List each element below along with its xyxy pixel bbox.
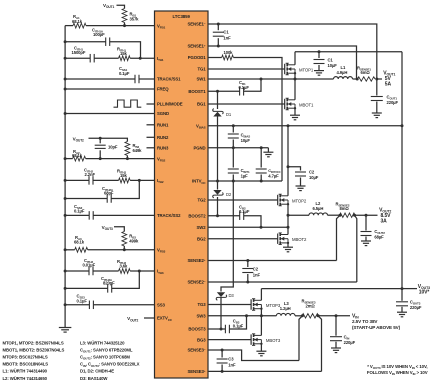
node VIN label	[352, 314, 401, 330]
wire VFB1 line	[65, 25, 154, 27]
junction rail/SS1	[64, 78, 67, 81]
svg-text:10µF: 10µF	[241, 138, 251, 143]
junction C2/SENSE2+	[246, 259, 249, 262]
junction C1/SENSE1-	[217, 23, 220, 26]
wire VBIAS line	[208, 125, 402, 127]
node VOUT2 (feedback tap label)	[73, 137, 84, 143]
node VOUT1 output label	[383, 71, 395, 88]
junction C2/SENSE2-	[246, 281, 249, 284]
wire SENSE2+ tap	[337, 215, 341, 260]
wire BOOST1 row	[208, 79, 261, 91]
wire ITH3 row	[65, 270, 154, 272]
junction C1b/input rail	[318, 50, 321, 53]
junction rail/CITH1A	[64, 40, 67, 43]
resistor RA3 68.1k	[74, 235, 88, 252]
svg-text:TRACK/SS2: TRACK/SS2	[157, 213, 181, 218]
ground (COUT2)	[361, 241, 371, 246]
wire SW1 line	[208, 78, 334, 80]
node VOUT1 (feedback tap label)	[103, 3, 114, 9]
svg-text:SW3: SW3	[196, 314, 206, 319]
junction D2/BOOST2	[216, 214, 219, 217]
capacitor CITH2 2.2nF	[84, 168, 95, 185]
junction RSENSE1/SENSE1+ tap	[356, 78, 359, 81]
svg-text:357k: 357k	[130, 17, 140, 22]
wire TG2 to MTOP2 gate	[208, 199, 278, 201]
capacitor COUT2 68uF	[361, 215, 386, 240]
junction rail/SS2	[64, 214, 67, 217]
junction rail/CITH3A	[64, 287, 67, 290]
junction VBIAS/input rail	[401, 124, 404, 127]
ground (COUT1)	[372, 113, 382, 118]
junction rail/ITH2	[64, 179, 67, 182]
capacitor C2 1nF	[242, 261, 260, 283]
node VOUT2 output label	[379, 207, 391, 224]
wire SENSE3- tap	[299, 316, 302, 361]
component list column 1	[3, 341, 65, 381]
ground (MBOT2)	[283, 247, 293, 252]
svg-text:220µF: 220µF	[344, 340, 356, 345]
wire INTVCC row	[208, 180, 282, 182]
svg-text:1nF: 1nF	[228, 362, 236, 367]
junction rail/ITH3	[64, 270, 67, 273]
capacitor CITH2A 68pF	[102, 186, 114, 203]
svg-text:MTOP3: BSC027N04LS: MTOP3: BSC027N04LS	[3, 355, 48, 360]
svg-text:MTOP1: MTOP1	[299, 67, 314, 72]
svg-text:8mΩ: 8mΩ	[340, 206, 350, 211]
capacitor CINT1 1uF	[228, 148, 250, 181]
capacitor C1 10uF input bypass ch1	[314, 52, 338, 71]
svg-text:1500pF: 1500pF	[72, 50, 86, 55]
svg-text:10pF: 10pF	[108, 145, 118, 150]
svg-text:0.01µF: 0.01µF	[83, 263, 96, 268]
svg-text:820pF: 820pF	[103, 281, 115, 286]
node VOUT2 to EXTVCC	[127, 316, 154, 322]
svg-text:0.1µF: 0.1µF	[233, 323, 244, 328]
svg-text:BG1: BG1	[197, 102, 206, 107]
capacitor CB1 0.1uF	[239, 80, 250, 96]
wire RB3 to VFB3	[123, 246, 125, 250]
wire MTOP2 drain riser	[287, 126, 289, 196]
junction rail/CITH2A	[64, 197, 67, 200]
wire D1 riser	[217, 91, 219, 181]
capacitor COUT1 220uF	[371, 79, 399, 113]
resistor RB2 649k	[125, 142, 142, 156]
capacitor CSS3 0.1uF	[77, 294, 94, 310]
svg-text:3A: 3A	[381, 218, 388, 224]
wire SENSE2- line	[208, 281, 357, 283]
junction VOUT3 node	[401, 287, 404, 290]
junction MTOP3-MBOT3/SW3	[260, 314, 263, 317]
svg-text:6mΩ: 6mΩ	[361, 70, 371, 75]
junction rail/FREQ	[64, 88, 67, 91]
wire MTOP1 source to SW1	[294, 73, 296, 79]
wire CITH1A branch	[65, 42, 140, 59]
wire ITH1 row	[65, 57, 154, 59]
wire MBOT3 drain to SW3	[260, 316, 262, 336]
svg-text:RUN3: RUN3	[157, 146, 169, 151]
svg-text:BOOST1: BOOST1	[188, 89, 206, 94]
junction SW2/MOSFET node	[287, 226, 290, 229]
svg-text:68.1k: 68.1k	[72, 153, 83, 158]
wire ITH2 row	[65, 179, 154, 181]
resistor RITH3 3.6k	[117, 259, 130, 273]
junction CINTVCC/INTVCC	[260, 180, 263, 183]
capacitor CB3 0.1uF	[225, 318, 243, 333]
wire SENSE1+ line	[208, 46, 357, 79]
svg-text:220µF: 220µF	[387, 100, 399, 105]
junction CB3/SW3	[245, 314, 248, 317]
junction ITH1/CITH1A	[139, 57, 142, 60]
wire RB2 to VFB2	[126, 156, 128, 159]
svg-text:4.7µF: 4.7µF	[268, 173, 279, 178]
component list column 2	[80, 341, 140, 381]
wire BOOST2 row	[208, 216, 261, 228]
svg-text:MBOT3: BSC018N04LS: MBOT3: BSC018N04LS	[3, 362, 49, 367]
svg-text:68.1k: 68.1k	[74, 239, 85, 244]
wire RSENSE3 to VIN node	[319, 315, 351, 317]
wire SENSE2- tap	[355, 215, 357, 282]
wire PGND row	[208, 147, 268, 149]
capacitor CITH1 1500pF	[72, 46, 95, 63]
wire MBOT1 drain to SW1	[294, 79, 296, 100]
junction VOUT2 node	[365, 214, 368, 217]
svg-text:10µF: 10µF	[309, 175, 319, 180]
svg-text:15k: 15k	[120, 173, 127, 178]
node VOUT3 (feedback tap label)	[102, 225, 113, 231]
resistor RSENSE1 6mOhm	[357, 65, 375, 81]
wire SENSE1- line	[208, 24, 377, 79]
net SGND rail (left vertical ground rail)	[64, 26, 66, 327]
capacitor CITH3 0.01uF	[83, 258, 96, 275]
junction RSENSE2 right tap	[353, 214, 356, 217]
junction MTOP1-MBOT1/SW1	[294, 78, 297, 81]
svg-text:0.1µF: 0.1µF	[74, 209, 85, 214]
wire MBOT1 source to gnd	[294, 108, 296, 115]
wire VOUT3 line	[261, 288, 402, 290]
junction C4.7/PGND	[260, 146, 263, 149]
resistor 100k PGOOD1 pull-up	[222, 50, 234, 60]
wire RUN1 stub	[147, 124, 155, 126]
svg-text:(START-UP ABOVE 5V): (START-UP ABOVE 5V)	[352, 325, 401, 330]
diode D3 (INTVCC to BOOST3)	[216, 292, 234, 300]
svg-text:2.2nF: 2.2nF	[85, 172, 96, 177]
junction D1/INTVCC	[216, 180, 219, 183]
svg-text:LTC3859: LTC3859	[173, 14, 191, 19]
junction MTOP2 riser/VBIAS	[287, 124, 290, 127]
wire MTOP3 drain riser	[260, 289, 262, 301]
resistor RSENSE2 8mOhm	[336, 201, 356, 217]
svg-text:D3: BAS140W: D3: BAS140W	[80, 376, 108, 381]
transistor MBOT1	[285, 98, 314, 110]
svg-text:3.6k: 3.6k	[120, 264, 129, 269]
wire BG3 to MBOT3 gate	[208, 339, 251, 341]
inductor L1 4.9uH	[334, 65, 353, 79]
wire VOUT1 stub to RB1	[117, 5, 125, 8]
svg-text:0.1µF: 0.1µF	[239, 85, 250, 90]
svg-text:0.1µF: 0.1µF	[239, 209, 250, 214]
resistor RITH1 15k	[117, 47, 130, 61]
wire PLLIN/MODE stub	[147, 103, 155, 105]
junction rail/SS3	[64, 303, 67, 306]
wire BG1 to MBOT1 gate	[208, 103, 285, 105]
junction rail/ITH1	[64, 57, 67, 60]
wire TRACK/SS2 row	[65, 214, 154, 216]
svg-text:PLLIN/MODE: PLLIN/MODE	[157, 102, 183, 107]
svg-text:D3: D3	[229, 293, 235, 298]
wire SENSE3+ tap	[318, 316, 321, 372]
junction C2b tap	[287, 165, 290, 168]
inductor L2 6.5uH	[309, 201, 328, 215]
svg-text:1nF: 1nF	[223, 36, 231, 41]
wire TG3 to MTOP3 gate	[208, 304, 251, 306]
wire MTOP2 source to SW2 node	[287, 204, 289, 234]
wire D3 riser from INTVCC	[221, 181, 233, 292]
wire TRACK/SS1 row	[65, 78, 154, 80]
svg-text:1µF: 1µF	[241, 173, 249, 178]
junction D3/BOOST3	[220, 328, 223, 331]
svg-text:D1, D2: CMDH-4E: D1, D2: CMDH-4E	[80, 369, 114, 374]
svg-text:MTOP3: MTOP3	[266, 303, 281, 308]
svg-text:68pF: 68pF	[104, 191, 114, 196]
wire input rail right (VOUT3 to bucks)	[401, 52, 403, 289]
junction VOUT2/10pF	[99, 137, 102, 140]
capacitor COUT3 220uF	[396, 289, 422, 312]
wire MTOP3 source to SW3	[260, 309, 262, 316]
svg-text:MTOP1, MTOP2: BSZ097N04LS: MTOP1, MTOP2: BSZ097N04LS	[3, 341, 64, 346]
svg-text:220µF: 220µF	[410, 305, 422, 310]
junction rail/VFB3	[64, 248, 67, 251]
wire TG1 to MTOP1 gate	[208, 68, 285, 70]
svg-text:BOOST2: BOOST2	[188, 213, 206, 218]
wire SW2 row	[208, 226, 288, 228]
capacitor C2 10uF input bypass ch2	[288, 167, 319, 186]
svg-text:68.1k: 68.1k	[72, 19, 83, 24]
wire VFB3 row	[65, 249, 154, 251]
wire VOUT3 stub	[114, 227, 124, 232]
IC U1 LTC3859 controller body	[155, 11, 209, 378]
svg-text:C1: C1	[328, 58, 334, 63]
wire VOUT3 stub right	[402, 288, 417, 290]
capacitor CSS1 0.1uF	[119, 66, 139, 83]
svg-text:C1: C1	[223, 30, 229, 35]
note VOUT3 behavior	[367, 364, 428, 376]
svg-text:PGND: PGND	[193, 146, 205, 151]
svg-text:499k: 499k	[129, 239, 139, 244]
junction rail/VFB2	[64, 157, 67, 160]
wire D3 lower riser	[220, 298, 222, 330]
resistor RA2 68.1k	[72, 149, 86, 161]
wire VFB2 row	[65, 158, 154, 160]
capacitor CIN 220uF	[330, 316, 356, 348]
junction ITH3/CITH3A	[138, 270, 141, 273]
wire SS3 row	[65, 304, 154, 306]
transistor MTOP2	[278, 194, 307, 206]
wire SENSE3+ line	[208, 370, 322, 372]
junction C3/SENSE3+	[221, 370, 224, 373]
svg-text:L2: WÜRTH 744314650: L2: WÜRTH 744314650	[3, 376, 48, 381]
wire VOUT2 stub	[89, 138, 128, 141]
wire D2 riser	[217, 181, 219, 216]
svg-text:100k: 100k	[224, 50, 234, 55]
svg-text:MBOT1, MBOT2: BSZ097N04LS: MBOT1, MBOT2: BSZ097N04LS	[3, 348, 65, 353]
wire VOUT1 stub right	[377, 78, 382, 80]
svg-text:2.5V TO 38V: 2.5V TO 38V	[352, 319, 378, 324]
svg-text:TG2: TG2	[197, 198, 206, 203]
junction RB1/VFB1	[123, 24, 126, 27]
ground (MBOT3)	[256, 351, 266, 356]
wire MTOP1 drain riser	[294, 52, 296, 65]
junction C1/SENSE1+	[217, 45, 220, 48]
wire RUN3 stub	[147, 147, 155, 149]
svg-text:0.1µF: 0.1µF	[77, 298, 88, 303]
svg-text:1.2µH: 1.2µH	[280, 306, 291, 311]
transistor MTOP3	[251, 299, 281, 311]
svg-text:PGOOD1: PGOOD1	[188, 55, 206, 60]
junction CBIAS/PGND	[232, 146, 235, 149]
wire RB1 to VFB1 line	[124, 23, 126, 26]
svg-text:0.1µF: 0.1µF	[119, 71, 130, 76]
svg-text:C2: C2	[309, 170, 315, 175]
svg-text:RUN2: RUN2	[157, 135, 169, 140]
capacitor CB2 0.1uF	[239, 204, 250, 220]
svg-text:L1: WÜRTH 744314490: L1: WÜRTH 744314490	[3, 369, 48, 374]
svg-text:L3: WÜRTH 744325120: L3: WÜRTH 744325120	[80, 341, 125, 346]
junction D1/BOOST1	[216, 90, 219, 93]
capacitor CBIAS 10uF	[228, 126, 251, 148]
wire MBOT3 source to gnd	[260, 344, 262, 351]
junction 10pF/VFB2	[99, 157, 102, 160]
svg-text:FREQ: FREQ	[157, 87, 169, 92]
svg-text:MBOT2: MBOT2	[292, 237, 307, 242]
wire L2 line	[288, 214, 309, 216]
wire PGOOD1 row	[208, 58, 282, 182]
junction VOUT1 node	[375, 78, 378, 81]
svg-text:5A: 5A	[385, 82, 392, 88]
svg-text:649k: 649k	[133, 148, 143, 153]
node VOUT3 output label	[418, 284, 430, 296]
inductor L3 1.2uH	[276, 301, 295, 316]
wire L3 to RSENSE3	[295, 315, 302, 317]
junction CBIAS/VBIAS	[232, 124, 235, 127]
svg-text:2mΩ: 2mΩ	[306, 303, 316, 308]
wire CITH3A branch	[65, 271, 139, 288]
wire BOOST3 row	[208, 316, 247, 329]
wire MBOT2 source to gnd	[287, 243, 289, 247]
capacitor CINTVCC 4.7uF	[256, 148, 281, 181]
junction CB1/SW1	[260, 78, 263, 81]
wire SENSE3- line	[208, 350, 299, 361]
capacitor CITH3A 820pF	[101, 276, 115, 293]
svg-text:BG3: BG3	[197, 337, 206, 342]
wire SGND row	[65, 113, 154, 115]
junction CB2/SW2	[260, 226, 263, 229]
junction CINT1+D3 riser/INTVCC	[232, 180, 235, 183]
capacitor 10pF feedforward	[95, 138, 118, 158]
resistor RSENSE3 2mOhm	[302, 299, 319, 319]
svg-text:SENSE2+: SENSE2+	[187, 258, 205, 263]
capacitor CITH1A 100pF	[92, 28, 110, 46]
junction L2 tap	[287, 214, 290, 217]
wire BG2 to MBOT2 gate	[208, 238, 278, 240]
capacitor C3 1nF	[217, 350, 236, 371]
svg-text:BOOST3: BOOST3	[188, 327, 206, 332]
svg-text:SENSE3−: SENSE3−	[187, 347, 205, 352]
svg-text:SENSE2−: SENSE2−	[187, 279, 205, 284]
junction RB3/VFB3	[123, 248, 126, 251]
wire CITH2A branch	[65, 180, 139, 198]
svg-text:SW2: SW2	[196, 225, 206, 230]
svg-text:TG1: TG1	[197, 67, 206, 72]
diode D1 (INTVCC to BOOST1)	[213, 109, 232, 117]
wire SENSE2+ line	[208, 260, 337, 262]
diode D2 (INTVCC to BOOST2)	[213, 190, 232, 198]
svg-text:MBOT3: MBOT3	[266, 338, 281, 343]
wire SW3 line	[208, 315, 276, 317]
svg-text:C3: C3	[228, 357, 234, 362]
transistor MTOP1	[285, 63, 314, 75]
transistor MBOT3	[251, 334, 281, 346]
ground (MBOT1)	[290, 115, 300, 120]
resistor RA1 68.1k	[72, 14, 86, 28]
svg-text:SENSE1+: SENSE1+	[187, 43, 205, 48]
svg-text:SS3: SS3	[157, 303, 166, 308]
capacitor C1 1nF	[213, 24, 231, 46]
svg-text:6.5µH: 6.5µH	[313, 206, 324, 211]
junction RSENSE3 right tap	[317, 314, 320, 317]
resistor RITH2 15k	[117, 169, 130, 183]
svg-text:4.9µH: 4.9µH	[337, 70, 348, 75]
svg-text:15k: 15k	[120, 51, 127, 56]
svg-text:D1: D1	[226, 112, 232, 117]
IC left pin labels	[157, 23, 183, 322]
svg-text:SW1: SW1	[196, 77, 206, 82]
junction rail/SGND	[64, 112, 67, 115]
ground (ch2 input bypass)	[296, 186, 306, 191]
transistor MBOT2	[278, 233, 307, 245]
svg-text:1nF: 1nF	[253, 273, 261, 278]
ground (ch1 input bypass)	[314, 71, 324, 76]
resistor RB3 499k	[122, 232, 139, 247]
svg-text:10V*: 10V*	[419, 290, 430, 296]
wire input rail top	[295, 51, 402, 53]
svg-text:C2: C2	[253, 267, 259, 272]
svg-text:RUN1: RUN1	[157, 123, 169, 128]
IC right pin labels	[187, 21, 206, 374]
ground (PGND)	[263, 148, 273, 157]
svg-text:MTOP2: MTOP2	[292, 198, 307, 203]
svg-text:100pF: 100pF	[93, 32, 105, 37]
svg-text:SENSE3+: SENSE3+	[187, 369, 205, 374]
svg-text:BG2: BG2	[197, 236, 206, 241]
svg-text:SGND: SGND	[157, 111, 169, 116]
junction ITH2/CITH2A	[138, 179, 141, 182]
svg-text:MBOT1: MBOT1	[299, 102, 314, 107]
junction CIN/VIN	[335, 314, 338, 317]
capacitor CSS2 0.1uF	[74, 204, 93, 220]
svg-text:TRACK/SS1: TRACK/SS1	[157, 77, 181, 82]
ground (CIN)	[331, 348, 341, 353]
svg-text:TG3: TG3	[197, 302, 206, 307]
junction C3/SENSE3-	[221, 349, 224, 352]
wire FREQ row	[65, 88, 154, 90]
wire RUN2 stub	[147, 136, 155, 138]
svg-text:10µF: 10µF	[328, 63, 338, 68]
ground (COUT3)	[397, 312, 407, 317]
junction RSENSE2 left tap	[339, 214, 342, 217]
svg-text:68µF: 68µF	[374, 234, 384, 239]
svg-text:SENSE1−: SENSE1−	[187, 21, 205, 26]
svg-text:D2: D2	[226, 192, 232, 197]
